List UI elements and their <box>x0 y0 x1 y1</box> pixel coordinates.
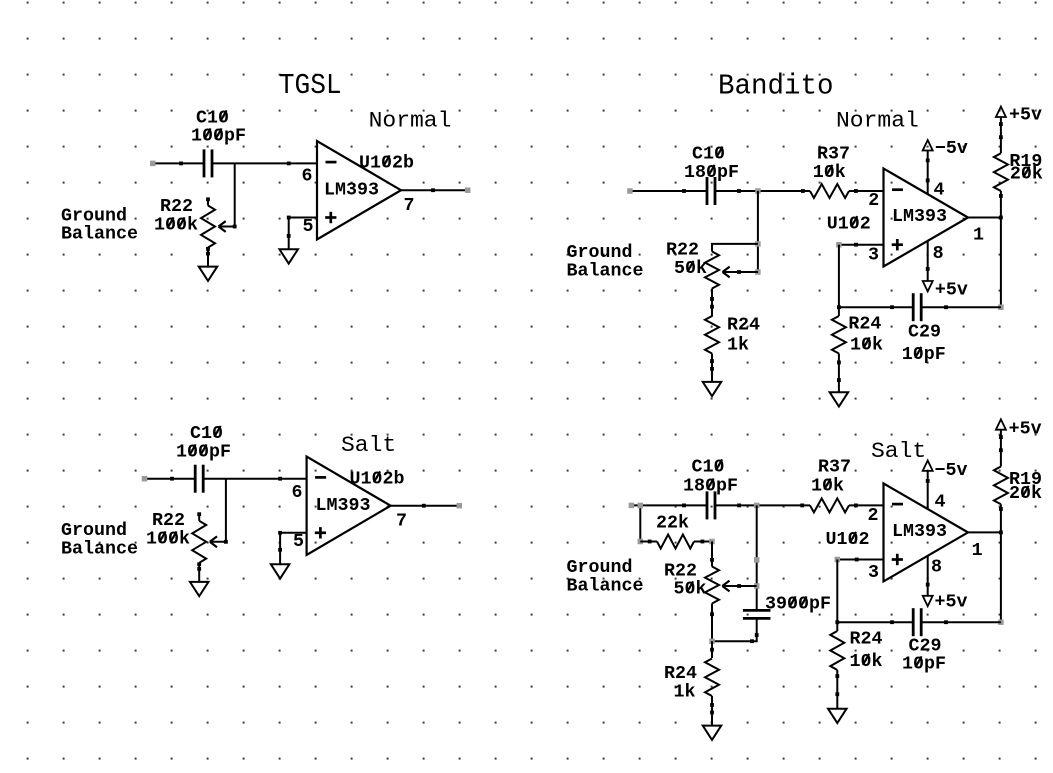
ground below R22 (TGSL normal) <box>207 254 209 267</box>
svg-text:Balance: Balance <box>61 225 138 245</box>
svg-text:6: 6 <box>292 483 303 503</box>
resistor R37 10k (Bandito salt) <box>810 498 849 512</box>
pin dot U102b pin6 <box>278 477 282 481</box>
svg-text:10k: 10k <box>811 477 844 497</box>
svg-text:Bandito: Bandito <box>718 70 834 103</box>
op-amp U102b (TGSL salt) <box>307 457 391 555</box>
pin dot pin3 <box>855 558 859 562</box>
minus input marker <box>892 503 903 506</box>
pin dot R22 bottom <box>710 297 714 301</box>
pin dot R37 left <box>800 504 804 508</box>
svg-text:2: 2 <box>868 506 879 526</box>
wire R22 to R24 <box>711 299 713 317</box>
wire input net (TGSL normal) <box>153 162 204 164</box>
svg-text:R22: R22 <box>160 197 193 217</box>
junction dot output <box>999 531 1003 535</box>
wire R24 to ground <box>711 354 713 369</box>
pin dot R19 bottom <box>999 194 1003 198</box>
pin dot R24 bottom <box>710 359 714 363</box>
wire drop to 22k <box>639 505 641 541</box>
segment marker pin3 <box>836 242 842 248</box>
pin dot pin5 <box>278 531 282 535</box>
ground below R24 10k (Bandito normal) <box>830 392 849 406</box>
wire R22 to R24 <box>711 641 713 658</box>
segment marker 22k <box>638 539 644 545</box>
wire junction down to wiper <box>757 191 759 272</box>
wire pin 3 net <box>837 559 883 561</box>
svg-text:6: 6 <box>302 167 313 187</box>
svg-text:7: 7 <box>404 196 415 216</box>
svg-text:2: 2 <box>868 191 879 211</box>
junction dot bottom <box>835 620 839 624</box>
wire output pin 7 <box>391 505 460 507</box>
svg-text:180pF: 180pF <box>683 477 738 497</box>
corner dot <box>233 225 237 229</box>
svg-text:C10: C10 <box>190 424 223 444</box>
resistor R24 10k (Bandito salt) <box>830 631 844 670</box>
wire C10 to pin 6 <box>212 162 317 164</box>
svg-text:8: 8 <box>933 244 944 264</box>
pin dot R19 stub <box>999 135 1003 139</box>
wire to 22k <box>640 541 657 543</box>
net endpoint marker <box>142 476 148 482</box>
svg-text:3: 3 <box>868 246 879 266</box>
potentiometer R22 50k (Bandito salt) <box>705 567 719 604</box>
wire output pin 1 <box>968 531 1001 533</box>
pin dot C10 left <box>682 504 686 508</box>
ground at pin 5 (TGSL salt) <box>279 551 281 564</box>
ground below R24 10k (Bandito salt) <box>828 709 847 723</box>
ground below R24 (Bandito salt) <box>703 726 722 740</box>
svg-text:50k: 50k <box>674 259 707 279</box>
svg-text:50k: 50k <box>674 580 707 600</box>
pin dot R22 bottom <box>206 247 210 251</box>
pin dot R22 top <box>710 558 714 562</box>
pin dot gnd stub <box>287 234 291 238</box>
pin dot C29 right <box>944 305 948 309</box>
svg-text:3900pF: 3900pF <box>765 595 831 615</box>
pin dot C10 right <box>737 189 741 193</box>
pin dot R22 bottom <box>197 562 201 566</box>
capacitor C10 (Bandito salt) <box>706 491 709 519</box>
plus input marker <box>892 243 903 246</box>
wire pin 8 to +5v <box>927 241 929 281</box>
corner dot <box>750 639 754 643</box>
wire C10 to pin 6 <box>203 478 306 480</box>
pin dot C10 left <box>179 162 183 166</box>
wire junction drop to R22 wiper <box>211 479 226 542</box>
wire to R22 top <box>712 244 758 252</box>
net endpoint marker <box>629 503 635 509</box>
resistor R24 1k (Bandito salt) <box>705 659 719 697</box>
svg-text:10k: 10k <box>850 652 883 672</box>
wire pin5 to ground <box>289 218 317 236</box>
svg-text:Balance: Balance <box>61 540 138 560</box>
+5v supply at pin 8 (Bandito normal) <box>923 281 933 291</box>
capacitor C29 10pF (Bandito normal) <box>912 293 915 321</box>
wire R24 to ground <box>711 696 713 726</box>
svg-text:R22: R22 <box>152 511 185 531</box>
svg-text:3: 3 <box>868 563 879 583</box>
pin dot pin7 <box>422 504 426 508</box>
svg-text:Normal: Normal <box>369 109 452 134</box>
svg-text:10pF: 10pF <box>902 345 946 365</box>
pin dot pin8 <box>926 583 930 587</box>
net endpoint marker <box>998 619 1004 625</box>
wire +5v to R19 <box>1000 430 1002 467</box>
svg-text:+5v: +5v <box>1009 420 1042 440</box>
svg-text:10pF: 10pF <box>902 655 946 675</box>
segment marker R22 top <box>709 539 715 545</box>
pin dot R19 top <box>999 122 1003 126</box>
pin dot C10 left <box>170 477 174 481</box>
svg-text:C29: C29 <box>909 637 942 657</box>
pin dot R24 bottom <box>837 361 841 365</box>
wire bottom net left <box>837 621 913 623</box>
minus input marker <box>892 188 903 191</box>
pin dot U102b pin6 <box>287 162 291 166</box>
svg-text:180pF: 180pF <box>684 163 739 183</box>
svg-text:R24: R24 <box>850 630 883 650</box>
svg-text:LM393: LM393 <box>316 496 371 516</box>
wire C10 to R37 <box>715 190 810 192</box>
wire input net (TGSL salt) <box>145 478 196 480</box>
pin dot C29 right <box>944 620 948 624</box>
segment marker pot bottom <box>709 638 715 644</box>
svg-text:−5v: −5v <box>935 461 968 481</box>
svg-text:100pF: 100pF <box>176 443 231 463</box>
pin dot pin3 <box>854 243 858 247</box>
wire bottom net right <box>922 306 1001 308</box>
resistor R24 1k (Bandito normal) <box>705 316 719 354</box>
pin dot R19 bottom <box>999 507 1003 511</box>
net endpoint marker <box>627 188 633 194</box>
resistor 22k (Bandito salt) <box>657 535 694 549</box>
pin dot R22 top <box>206 197 210 201</box>
net endpoint marker <box>998 304 1004 310</box>
pin dot ground stub <box>206 252 210 256</box>
svg-text:R22: R22 <box>666 241 699 261</box>
wire pin 4 to -5v <box>927 471 929 510</box>
resistor R24 10k (Bandito normal) <box>832 316 846 354</box>
svg-text:20k: 20k <box>1010 165 1043 185</box>
pin dot R37 left <box>801 189 805 193</box>
wire pin5 to ground <box>280 533 307 551</box>
svg-text:U102b: U102b <box>350 470 405 490</box>
pin dot wiper <box>737 584 741 588</box>
wire pin 8 to +5v <box>927 556 929 596</box>
wiper arrow into R22 <box>219 221 226 226</box>
pin dot C10 left <box>682 189 686 193</box>
segment marker <box>755 269 761 275</box>
svg-text:U102: U102 <box>826 530 870 550</box>
wire pin3 down to bottom net <box>836 560 838 623</box>
svg-text:+5v: +5v <box>935 593 968 613</box>
wire output node down to C29 <box>1000 532 1002 622</box>
resistor R19 20k (Bandito normal) <box>994 153 1008 191</box>
wire 22k to R22 top <box>694 541 712 543</box>
+5v supply top right (Bandito salt) <box>996 419 1006 429</box>
svg-text:Salt: Salt <box>871 439 926 464</box>
pin dot gnd stub <box>710 711 714 715</box>
svg-text:4: 4 <box>935 493 946 513</box>
junction marker <box>754 503 760 509</box>
pin dot gnd stub <box>710 367 714 371</box>
resistor R19 20k (Bandito salt) <box>994 467 1008 505</box>
plus input marker <box>315 531 326 534</box>
pin dot R19 top <box>999 435 1003 439</box>
svg-text:+5v: +5v <box>1009 106 1042 126</box>
wire input net (Bandito normal) <box>630 190 707 192</box>
net endpoint marker <box>150 161 156 167</box>
wire R24 to ground <box>836 670 838 709</box>
ground below R24 (Bandito normal) <box>711 369 713 382</box>
svg-text:LM393: LM393 <box>892 522 947 542</box>
svg-text:Ground: Ground <box>61 521 127 541</box>
svg-text:+5v: +5v <box>935 280 968 300</box>
wire pin 4 to -5v <box>927 150 929 194</box>
svg-text:5: 5 <box>293 532 304 552</box>
svg-text:Ground: Ground <box>61 207 127 227</box>
wire below 3900pF <box>712 618 757 641</box>
wire wiper line <box>724 271 758 273</box>
ground below R22 (TGSL salt) <box>198 569 200 582</box>
resistor R37 10k (Bandito normal) <box>810 184 849 198</box>
svg-text:U102b: U102b <box>359 154 414 174</box>
svg-text:C29: C29 <box>908 323 941 343</box>
pin dot ground stub <box>197 567 201 571</box>
wiper arrow into R22 <box>723 267 730 272</box>
wire R37 to pin 2 <box>849 190 884 192</box>
pin dot gnd stub <box>837 378 841 382</box>
svg-text:TGSL: TGSL <box>279 69 342 102</box>
wire bottom net right <box>922 621 1001 623</box>
pin dot C29 left <box>890 305 894 309</box>
pin dot pin4 <box>926 479 930 483</box>
svg-text:−5v: −5v <box>935 139 968 159</box>
potentiometer R22 100k (TGSL normal) <box>201 206 215 248</box>
segment marker <box>754 557 760 563</box>
svg-text:100pF: 100pF <box>191 127 246 147</box>
pin dot C10 right <box>737 504 741 508</box>
capacitor C10 (TGSL normal) <box>203 149 206 177</box>
wire input net (Bandito salt) <box>631 504 707 506</box>
wire R22 top stub <box>711 542 713 567</box>
-5v supply (Bandito salt) <box>923 461 933 471</box>
svg-text:1k: 1k <box>674 683 696 703</box>
svg-text:1k: 1k <box>727 336 749 356</box>
svg-text:Balance: Balance <box>567 577 644 597</box>
svg-text:1: 1 <box>972 541 983 561</box>
svg-text:U102: U102 <box>827 214 871 234</box>
wire R19 to output node <box>1000 191 1002 218</box>
junction dot output <box>999 216 1003 220</box>
plus input marker <box>892 558 903 561</box>
pin dot 3900pF bottom <box>755 633 759 637</box>
wire pin 3 net <box>839 244 884 246</box>
pin dot 22k right <box>701 540 705 544</box>
svg-text:5: 5 <box>303 217 314 237</box>
svg-text:R24: R24 <box>664 664 697 684</box>
net endpoint marker output <box>465 187 471 193</box>
capacitor C29 10pF (Bandito salt) <box>912 608 915 636</box>
pin dot R24 top <box>710 648 714 652</box>
pin dot R24 bottom <box>710 703 714 707</box>
wire C10 to R37 <box>715 504 810 506</box>
pin dot gnd stub <box>278 548 282 552</box>
svg-text:C10: C10 <box>196 109 229 129</box>
svg-text:10k: 10k <box>850 336 883 356</box>
wire R37 to pin 2 <box>849 504 884 506</box>
pin dot wiper <box>737 270 741 274</box>
svg-text:20k: 20k <box>1009 484 1042 504</box>
svg-text:4: 4 <box>934 181 945 201</box>
svg-text:R37: R37 <box>817 145 850 165</box>
-5v supply (Bandito normal) <box>923 140 933 150</box>
pin dot R24 top <box>710 305 714 309</box>
segment marker 22k top <box>638 503 644 509</box>
pin dot R22 bottom <box>710 612 714 616</box>
+5v supply at pin 8 (Bandito salt) <box>923 596 933 606</box>
svg-text:Ground: Ground <box>567 243 633 263</box>
svg-text:8: 8 <box>931 558 942 578</box>
wiper arrow into R22 <box>722 581 729 586</box>
potentiometer R22 100k (TGSL salt) <box>192 521 206 563</box>
pin dot pin5 <box>287 216 291 220</box>
svg-text:R24: R24 <box>848 315 881 335</box>
pin dot -5v stub <box>926 159 930 163</box>
+5v supply top right (Bandito normal) <box>996 107 1006 117</box>
plus input marker <box>325 216 336 219</box>
svg-text:R24: R24 <box>727 316 760 336</box>
svg-text:Salt: Salt <box>341 433 396 458</box>
wire +5v to R19 <box>1000 117 1002 153</box>
junction marker <box>755 188 761 194</box>
svg-text:LM393: LM393 <box>324 181 379 201</box>
wire junction down (salt) <box>756 505 758 610</box>
op-amp U102 (Bandito normal) <box>884 169 969 267</box>
pin dot R19 stub <box>999 448 1003 452</box>
svg-text:7: 7 <box>396 512 407 532</box>
pin dot R24 bottom <box>835 674 839 678</box>
op-amp U102 (Bandito salt) <box>884 483 969 581</box>
svg-text:R37: R37 <box>818 458 851 478</box>
svg-text:LM393: LM393 <box>892 207 947 227</box>
minus input marker <box>315 476 326 479</box>
wire pin3 down to bottom net <box>838 245 840 308</box>
wire R19 to output node <box>1000 504 1002 532</box>
svg-text:Ground: Ground <box>567 558 633 578</box>
svg-text:Normal: Normal <box>836 109 919 134</box>
svg-text:100k: 100k <box>146 530 190 550</box>
segment marker <box>754 583 760 589</box>
pin dot 22k left <box>648 540 652 544</box>
minus input marker <box>326 161 337 164</box>
capacitor C10 (TGSL salt) <box>194 465 197 493</box>
svg-text:100k: 100k <box>154 216 198 236</box>
segment marker pin3 <box>835 557 841 563</box>
pin dot C29 left <box>890 620 894 624</box>
wire output pin 1 <box>968 217 1001 219</box>
svg-text:1: 1 <box>973 226 984 246</box>
wire wiper line <box>723 585 756 587</box>
pin dot pin8 <box>926 267 930 271</box>
svg-text:C10: C10 <box>692 145 725 165</box>
pin dot R37 right <box>854 504 858 508</box>
wiper arrow into R22 <box>210 536 217 541</box>
pin dot pin4 <box>926 179 930 183</box>
capacitor 3900pF (Bandito salt) <box>743 609 771 612</box>
svg-text:22k: 22k <box>656 514 689 534</box>
svg-text:Balance: Balance <box>567 262 644 282</box>
wire output pin 7 <box>401 189 468 191</box>
svg-text:10k: 10k <box>813 163 846 183</box>
corner dot <box>224 540 228 544</box>
segment marker <box>755 241 761 247</box>
wire output node down to C29 <box>1000 218 1002 308</box>
pin dot pin7 <box>431 188 435 192</box>
pin dot R37 right <box>854 189 858 193</box>
svg-text:C10: C10 <box>692 458 725 478</box>
wire junction drop to R22 wiper <box>220 163 235 226</box>
wire bottom net left <box>839 306 913 308</box>
ground at pin 5 (TGSL normal) <box>288 236 290 249</box>
pin dot gnd stub <box>835 692 839 696</box>
pin dot R22 top <box>197 512 201 516</box>
junction dot bottom <box>837 305 841 309</box>
potentiometer R22 50k (Bandito normal) <box>705 252 719 289</box>
op-amp U102b (TGSL normal) <box>317 141 401 239</box>
net endpoint marker output <box>457 503 463 509</box>
capacitor C10 (Bandito normal) <box>706 177 709 205</box>
wire R24 to ground <box>838 354 840 393</box>
svg-text:R22: R22 <box>664 562 697 582</box>
